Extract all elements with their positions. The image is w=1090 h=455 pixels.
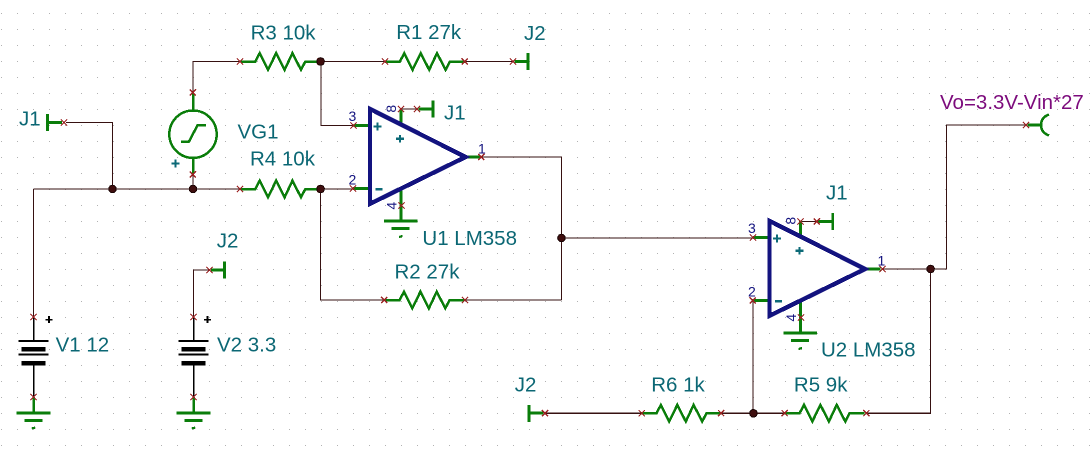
svg-text:J1: J1 xyxy=(19,108,41,131)
wire input bus xyxy=(34,188,241,190)
x U1 pin8 xyxy=(398,106,404,112)
x Vo stub xyxy=(1023,122,1029,128)
svg-text:J2: J2 xyxy=(217,230,239,253)
svg-text:R5 9k: R5 9k xyxy=(794,374,848,397)
wire R6 to R5 xyxy=(721,412,785,414)
x U2 pin4 xyxy=(798,314,804,320)
x U2 pin2 xyxy=(750,297,756,303)
junction U2 out xyxy=(927,265,935,273)
wire U1 output down xyxy=(481,157,561,300)
svg-text:R4 10k: R4 10k xyxy=(250,148,316,171)
x J1 stub U2 xyxy=(814,218,820,224)
wire U2 output to Vo xyxy=(883,125,1027,269)
x R2 right xyxy=(462,297,468,303)
x VG1 bottom xyxy=(190,171,196,177)
svg-text:1: 1 xyxy=(478,140,486,156)
resistor R4 xyxy=(240,181,320,198)
svg-text:Vo=3.3V-Vin*27: Vo=3.3V-Vin*27 xyxy=(940,91,1084,114)
x R3 right xyxy=(318,58,324,64)
resistor R5 xyxy=(785,405,865,422)
resistor R3 xyxy=(240,53,320,70)
connector J1 at U1 xyxy=(419,101,434,118)
battery V2 xyxy=(179,316,212,397)
junction VG1 / bus xyxy=(189,185,197,193)
junction R6 / R5 xyxy=(750,410,758,418)
wire U2 pin 8 to J1 xyxy=(801,221,817,223)
x U2 pin3 xyxy=(750,234,756,240)
wire bus to V1 xyxy=(33,189,35,317)
battery V1 xyxy=(19,316,53,397)
x R5 left xyxy=(782,410,788,416)
RESISTORS xyxy=(240,53,864,421)
svg-text:J1: J1 xyxy=(826,182,848,205)
x R4 left xyxy=(237,186,243,192)
svg-text:R2 27k: R2 27k xyxy=(395,261,461,284)
op-amp U2 xyxy=(753,221,881,332)
x R2 left xyxy=(381,297,387,303)
svg-text:VG1: VG1 xyxy=(238,121,279,144)
wire node to U2 pin 3 xyxy=(562,237,754,239)
x R1 right xyxy=(462,58,468,64)
wire R2 to output node xyxy=(465,299,562,301)
junction U1 out / U2 in xyxy=(558,234,566,242)
PIN NUMBERS xyxy=(349,105,886,322)
wire VG1 top to R3 xyxy=(193,62,240,93)
wire R1 to J2 xyxy=(465,61,513,63)
svg-text:R3 10k: R3 10k xyxy=(251,21,317,44)
resistor R1 xyxy=(385,53,465,70)
connector J2 mid xyxy=(211,262,225,279)
wire R5 to output node xyxy=(866,269,930,413)
x V1 bottom xyxy=(30,394,36,400)
svg-text:3: 3 xyxy=(748,220,756,236)
wire U1 pin 8 to J1 xyxy=(401,108,417,110)
wire J1 to input bus xyxy=(66,123,113,190)
X-MARKS xyxy=(30,58,1029,416)
svg-text:8: 8 xyxy=(783,217,799,225)
svg-text:2: 2 xyxy=(349,172,357,188)
x V2 bottom xyxy=(190,394,196,400)
x U2 pin1 xyxy=(879,266,885,272)
svg-text:3: 3 xyxy=(349,108,357,124)
ground V1 xyxy=(17,397,51,429)
x R3 left xyxy=(237,58,243,64)
svg-text:R1 27k: R1 27k xyxy=(396,21,462,44)
resistor R6 xyxy=(642,405,722,422)
x U1 pin4 xyxy=(398,202,404,208)
svg-text:J1: J1 xyxy=(444,102,466,125)
junction R3 / R1 xyxy=(317,58,325,66)
x R6 left xyxy=(639,410,645,416)
connector J2 bottom xyxy=(529,405,544,422)
svg-text:4: 4 xyxy=(783,314,799,322)
x J1 stub U1 xyxy=(414,106,420,112)
wire J2 to R6 xyxy=(545,412,642,414)
x U1 pin2 xyxy=(350,185,356,191)
x J2 top xyxy=(510,58,516,64)
voltage generator VG1 xyxy=(169,93,216,174)
svg-text:1: 1 xyxy=(878,252,886,268)
svg-text:V1 12: V1 12 xyxy=(56,334,110,357)
wire J2 mid to V2 xyxy=(194,270,210,317)
svg-text:4: 4 xyxy=(384,202,400,210)
junction input bus / J1 xyxy=(109,185,117,193)
wire R4 to U1 pin 2 xyxy=(321,188,353,190)
connector J1 left xyxy=(48,114,63,131)
resistor R2 xyxy=(385,292,465,309)
x U1 pin1 xyxy=(478,154,484,160)
x R5 right xyxy=(863,410,869,416)
svg-text:2: 2 xyxy=(748,284,756,300)
connector Vo output xyxy=(1028,115,1050,136)
x U1 pin3 xyxy=(350,122,356,128)
op-amp U1 xyxy=(353,109,481,220)
ground U1 pin4 xyxy=(384,221,418,237)
wire R3 to R1 xyxy=(321,61,385,63)
x R1 left xyxy=(382,58,388,64)
x V1 top xyxy=(30,314,36,320)
svg-text:V2 3.3: V2 3.3 xyxy=(217,334,276,357)
svg-text:8: 8 xyxy=(383,105,399,113)
x U2 pin8 xyxy=(797,218,803,224)
x J1 left xyxy=(61,119,67,125)
wire VG1 bottom to bus xyxy=(192,175,194,190)
connector J2 top xyxy=(515,53,529,70)
svg-text:J2: J2 xyxy=(524,22,546,45)
ground V2 xyxy=(177,397,211,429)
x V2 top xyxy=(190,314,196,320)
connector J1 at U2 xyxy=(818,213,833,230)
x R6 right xyxy=(718,410,724,416)
ground U2 pin4 xyxy=(784,333,818,349)
x R4 right xyxy=(318,186,324,192)
svg-text:R6 1k: R6 1k xyxy=(651,373,705,396)
wire U2 pin 2 down xyxy=(752,301,754,414)
junction R4 / feedback xyxy=(317,185,325,193)
svg-text:U2 LM358: U2 LM358 xyxy=(821,339,916,362)
svg-text:J2: J2 xyxy=(515,373,537,396)
x J2 bottom xyxy=(542,410,548,416)
x J2 mid xyxy=(206,267,212,273)
x VG1 top xyxy=(190,89,196,95)
wire feedback to R2 xyxy=(321,189,385,300)
svg-text:U1 LM358: U1 LM358 xyxy=(422,227,517,250)
wire R3 node to U1 pin 3 xyxy=(321,62,354,126)
